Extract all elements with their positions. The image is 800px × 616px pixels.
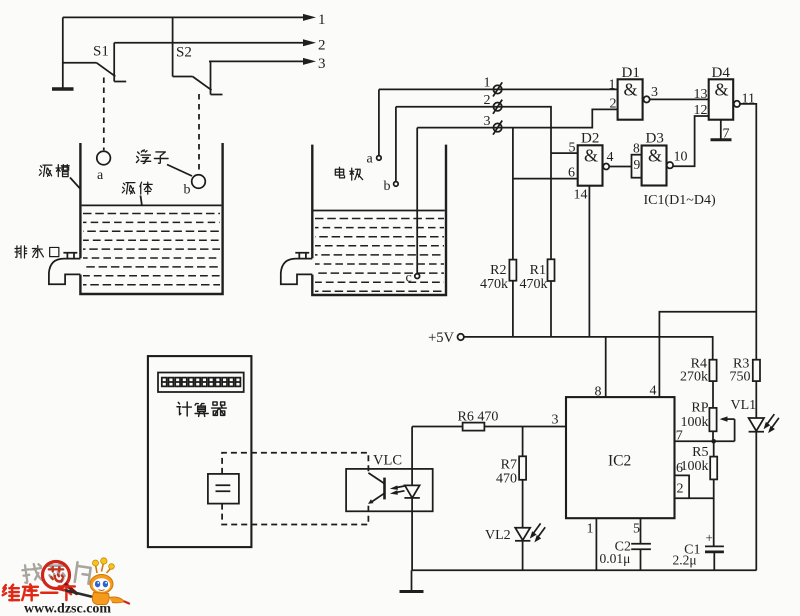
faucet tank2 — [281, 253, 313, 284]
wire IC2 pin2 — [675, 482, 714, 499]
label 液槽 (tank) with leader — [39, 165, 80, 189]
svg-text:VL1: VL1 — [731, 398, 757, 413]
wire D1 out to D4 pin13 — [650, 87, 709, 102]
nand gate D1 — [609, 65, 659, 120]
label 计算器 (calculator) — [177, 402, 226, 416]
svg-text:2.2μ: 2.2μ — [673, 553, 697, 568]
svg-text:12: 12 — [694, 103, 708, 118]
tank 1 liquid surface — [82, 204, 222, 206]
wire R5 bottom to C1 — [713, 479, 715, 546]
dashed link S2 to float b — [198, 94, 200, 174]
wire D4 out pin 11 to right vertical — [740, 104, 756, 360]
capacitor C2 — [600, 540, 651, 571]
svg-text:750: 750 — [730, 369, 751, 384]
svg-text:c: c — [406, 271, 412, 286]
label 电极 (electrodes) — [335, 167, 362, 180]
potentiometer RP — [681, 400, 735, 441]
resistor R1 — [520, 259, 555, 292]
svg-text:270k: 270k — [680, 369, 708, 384]
svg-text:b: b — [384, 179, 391, 194]
wire D2 out to D3 pins 8,9 — [609, 166, 631, 168]
tank 1 liquid dashes — [83, 214, 220, 285]
float a — [97, 151, 111, 165]
wire net 3 (electrode c to D1 pin2, R2) — [417, 109, 617, 127]
svg-text:+5V: +5V — [428, 330, 454, 346]
svg-text:RP: RP — [691, 400, 708, 415]
svg-text:D3: D3 — [646, 131, 664, 147]
resistor R4 — [680, 357, 717, 385]
svg-text:b: b — [184, 183, 191, 198]
tank 1 walls — [79, 143, 224, 294]
ground symbol bottom — [400, 570, 424, 591]
logo magnifier ring — [43, 562, 77, 594]
wire D3 out to D4 pin12 — [673, 103, 709, 166]
svg-text:1: 1 — [609, 78, 616, 93]
wire D2 pin14 — [588, 186, 590, 337]
+5V terminal — [428, 330, 464, 346]
computer box — [148, 356, 252, 547]
float b — [192, 175, 206, 189]
svg-text:a: a — [367, 152, 374, 167]
svg-text:IC2: IC2 — [608, 453, 631, 470]
svg-text:3: 3 — [484, 114, 491, 129]
svg-text:3: 3 — [318, 56, 326, 72]
svg-text:2: 2 — [610, 97, 617, 112]
connector symbol 2 — [484, 93, 503, 114]
svg-text:1: 1 — [318, 12, 326, 28]
label 浮子 (float) with leader — [136, 150, 192, 176]
svg-text:IC1(D1~D4): IC1(D1~D4) — [644, 193, 716, 208]
electrode c — [406, 128, 420, 286]
nand gate D2 — [568, 131, 614, 203]
wire IC2 pin1 — [587, 518, 597, 570]
wire R4 to RP — [712, 381, 714, 408]
svg-text:VL2: VL2 — [485, 528, 511, 543]
svg-text:14: 14 — [574, 188, 588, 203]
wire to arrow 3 — [209, 56, 326, 72]
tank 2 liquid surface — [314, 210, 445, 212]
svg-text:100k: 100k — [681, 459, 709, 474]
svg-text:2: 2 — [677, 482, 684, 497]
capacitor C1 — [673, 530, 724, 570]
svg-text:10: 10 — [674, 150, 688, 165]
wire left vertical to ground — [62, 17, 64, 88]
svg-text:R2: R2 — [490, 263, 506, 278]
svg-text:470k: 470k — [480, 277, 508, 292]
connector symbol 3 — [484, 114, 503, 135]
svg-text:7: 7 — [676, 429, 683, 444]
tank 2 walls — [311, 145, 447, 295]
nand gate D4 — [709, 65, 755, 120]
wire IC2 pin3 with R6 — [412, 410, 566, 431]
svg-text:5: 5 — [569, 141, 576, 156]
svg-text:a: a — [97, 168, 104, 183]
svg-text:470k: 470k — [520, 277, 548, 292]
svg-text:S1: S1 — [93, 44, 109, 60]
logo text 维库一下 (red) — [3, 584, 75, 600]
logo text 找芯片 (find chips) — [22, 562, 92, 584]
svg-text:0.01μ: 0.01μ — [600, 551, 631, 566]
dashed wire computer to VLC bottom — [222, 504, 368, 525]
faucet tank1 — [49, 253, 81, 284]
svg-text:13: 13 — [694, 87, 708, 102]
svg-text:+: + — [706, 530, 713, 545]
wire to arrow 2 — [114, 38, 325, 54]
svg-text:3: 3 — [552, 413, 559, 428]
svg-text:D2: D2 — [581, 131, 599, 147]
ground — [52, 87, 74, 90]
display window — [158, 373, 244, 393]
svg-text:470: 470 — [496, 472, 517, 487]
svg-text:VLC: VLC — [373, 453, 402, 469]
svg-text:2: 2 — [484, 93, 491, 108]
svg-text:5: 5 — [633, 522, 640, 537]
junction dot RP/R5 — [711, 439, 716, 444]
svg-text:2: 2 — [318, 38, 326, 54]
bottom ground rail — [412, 569, 757, 571]
tank 2 liquid dashes — [315, 219, 444, 292]
electrode b — [384, 107, 399, 194]
svg-text:R1: R1 — [530, 263, 546, 278]
wire D2 pin6 — [513, 178, 578, 180]
label 液体 (liquid) with leader — [122, 182, 152, 204]
resistor R3 — [730, 357, 761, 385]
svg-text:&: & — [624, 80, 638, 100]
electrode a — [367, 89, 382, 166]
wire IC2 pin8 — [595, 337, 606, 400]
wire net 2 (electrode b to R1, D2 pin5) — [396, 107, 551, 337]
switch S1 — [63, 43, 126, 82]
svg-text:9: 9 — [634, 157, 641, 172]
connector symbol 1 — [484, 76, 503, 97]
LED VL2 — [485, 523, 545, 570]
switch S2 — [173, 17, 223, 94]
svg-text:7: 7 — [723, 127, 730, 142]
svg-text:&: & — [648, 146, 662, 166]
logo mascot — [58, 558, 129, 605]
svg-text:R6 470: R6 470 — [458, 410, 499, 425]
svg-text:R7: R7 — [501, 457, 517, 472]
svg-text:1: 1 — [484, 76, 491, 91]
wire IC2 pin5 — [633, 518, 641, 544]
nand gate D3 — [632, 131, 688, 186]
LED VL1 — [731, 381, 779, 570]
svg-text:8: 8 — [633, 141, 640, 156]
svg-text:6: 6 — [568, 166, 575, 181]
svg-text:4: 4 — [607, 150, 614, 165]
wire D2 pin5 — [551, 152, 578, 154]
svg-text:S2: S2 — [176, 45, 192, 61]
resistor R5 — [681, 441, 718, 479]
svg-text:1: 1 — [587, 522, 594, 537]
optocoupler VLC — [346, 427, 433, 571]
resistor R2 — [480, 128, 516, 337]
svg-text:R5: R5 — [692, 445, 708, 460]
dashed link S1 to float a — [103, 78, 105, 151]
wire IC2 pin6 — [675, 461, 690, 499]
dashed wire computer to VLC top — [222, 453, 368, 474]
connector box inside computer — [208, 474, 239, 504]
svg-text:&: & — [715, 80, 729, 100]
wire pin11 net to IC2 pin4 — [650, 312, 757, 399]
label 排水口 (drain) — [15, 246, 59, 258]
ground pin 7 of D4 — [711, 120, 732, 142]
+5V wire — [464, 337, 713, 360]
svg-text:&: & — [584, 146, 598, 166]
svg-text:6: 6 — [676, 461, 683, 476]
svg-text:3: 3 — [651, 85, 658, 100]
IC2 — [566, 397, 675, 518]
svg-text:100k: 100k — [681, 415, 709, 430]
wire IC2 pin7 — [675, 429, 735, 444]
wire net 1 (electrode a to D1 pin1) — [379, 88, 618, 90]
wire to arrow 1 — [63, 12, 326, 28]
resistor R7 — [496, 427, 526, 528]
